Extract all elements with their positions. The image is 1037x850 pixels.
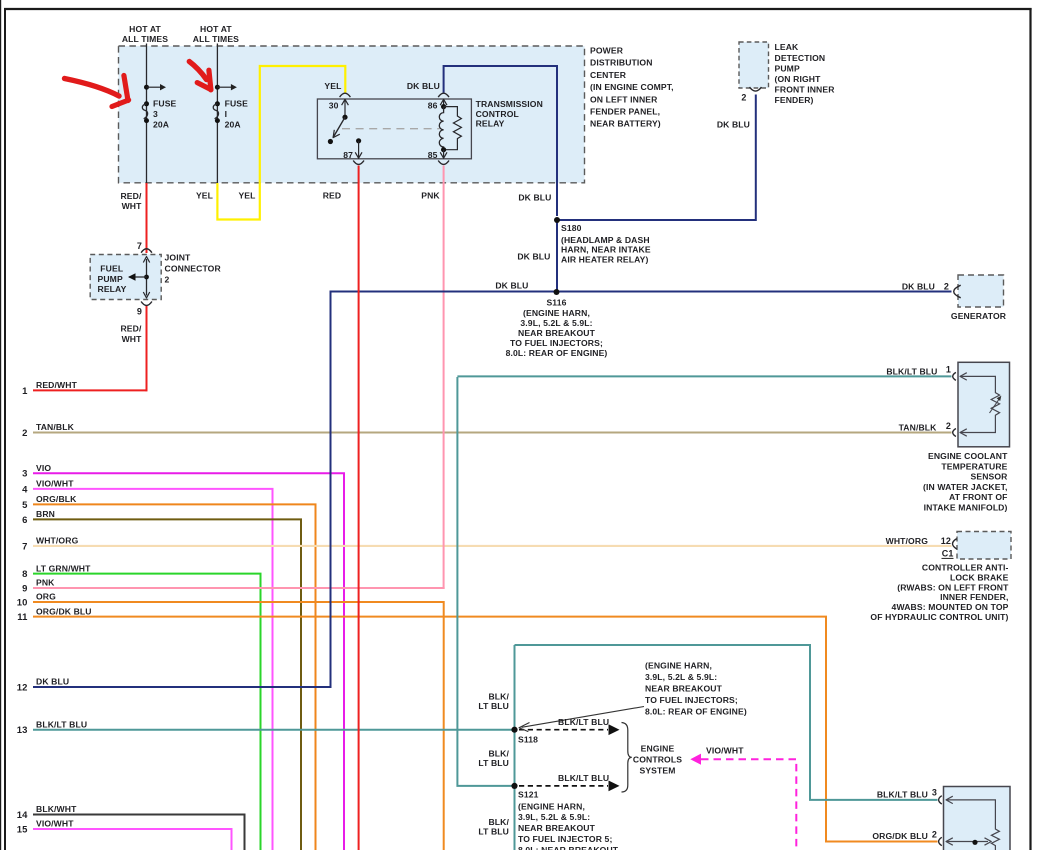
svg-text:OF HYDRAULIC CONTROL UNIT): OF HYDRAULIC CONTROL UNIT): [870, 612, 1008, 622]
svg-text:6: 6: [22, 515, 27, 526]
svg-text:2: 2: [22, 428, 27, 439]
svg-text:DISTRIBUTION: DISTRIBUTION: [590, 58, 653, 68]
svg-text:YEL: YEL: [196, 191, 213, 201]
svg-text:SENSOR: SENSOR: [970, 472, 1008, 482]
svg-text:11: 11: [17, 612, 28, 623]
svg-text:FUSE: FUSE: [225, 98, 249, 108]
svg-text:INTAKE MANIFOLD): INTAKE MANIFOLD): [924, 503, 1008, 513]
svg-text:3.9L, 5.2L & 5.9L:: 3.9L, 5.2L & 5.9L:: [520, 318, 592, 328]
svg-text:ON LEFT INNER: ON LEFT INNER: [590, 94, 658, 104]
svg-text:VIO/WHT: VIO/WHT: [36, 479, 74, 489]
svg-text:PUMP: PUMP: [98, 274, 123, 284]
svg-text:ORG: ORG: [36, 592, 56, 602]
svg-text:1: 1: [22, 386, 28, 397]
svg-text:TEMPERATURE: TEMPERATURE: [941, 461, 1007, 471]
svg-text:AIR HEATER RELAY): AIR HEATER RELAY): [561, 254, 649, 264]
svg-text:CONTROLLER ANTI-: CONTROLLER ANTI-: [922, 563, 1009, 573]
svg-text:YEL: YEL: [238, 191, 255, 201]
svg-text:3.9L, 5.2L & 5.9L:: 3.9L, 5.2L & 5.9L:: [518, 812, 590, 822]
svg-text:2: 2: [165, 275, 170, 285]
svg-text:DK BLU: DK BLU: [517, 252, 550, 262]
svg-text:8.0L: REAR OF ENGINE): 8.0L: REAR OF ENGINE): [506, 348, 608, 358]
svg-text:POWER: POWER: [590, 46, 624, 56]
svg-text:14: 14: [17, 810, 28, 821]
svg-text:DK BLU: DK BLU: [36, 677, 69, 687]
svg-text:8.0L: REAR OF ENGINE): 8.0L: REAR OF ENGINE): [645, 706, 747, 716]
svg-text:1: 1: [946, 365, 951, 375]
svg-text:FENDER PANEL,: FENDER PANEL,: [590, 107, 660, 117]
svg-text:20A: 20A: [153, 119, 169, 129]
svg-text:S118: S118: [518, 734, 538, 744]
svg-text:ALL TIMES: ALL TIMES: [193, 34, 239, 44]
svg-text:2: 2: [944, 282, 949, 292]
svg-text:C1: C1: [942, 549, 954, 559]
svg-text:RED: RED: [323, 191, 342, 201]
svg-text:13: 13: [17, 725, 28, 736]
svg-text:RELAY: RELAY: [98, 284, 127, 294]
svg-text:VIO: VIO: [36, 463, 51, 473]
svg-text:RED/: RED/: [120, 324, 142, 334]
svg-text:CENTER: CENTER: [590, 70, 627, 80]
svg-text:FENDER): FENDER): [775, 95, 814, 105]
svg-text:3: 3: [22, 469, 27, 480]
svg-text:DK BLU: DK BLU: [717, 119, 750, 129]
svg-text:3: 3: [932, 788, 937, 798]
svg-text:ORG/DK BLU: ORG/DK BLU: [36, 606, 92, 616]
svg-text:12: 12: [17, 682, 28, 693]
svg-text:4: 4: [22, 484, 28, 495]
svg-text:I: I: [225, 109, 228, 119]
svg-text:HARN, NEAR INTAKE: HARN, NEAR INTAKE: [561, 245, 651, 255]
svg-text:DK BLU: DK BLU: [902, 282, 935, 292]
svg-text:WHT/ORG: WHT/ORG: [36, 536, 79, 546]
svg-text:(ON RIGHT: (ON RIGHT: [775, 74, 822, 84]
svg-text:86: 86: [428, 100, 438, 110]
svg-text:RED/WHT: RED/WHT: [36, 380, 78, 390]
svg-text:4WABS: MOUNTED ON TOP: 4WABS: MOUNTED ON TOP: [892, 602, 1009, 612]
svg-text:LT GRN/WHT: LT GRN/WHT: [36, 563, 91, 573]
svg-text:FUEL: FUEL: [100, 264, 123, 274]
svg-text:30: 30: [329, 100, 339, 110]
svg-text:5: 5: [22, 500, 28, 511]
svg-text:(IN WATER JACKET,: (IN WATER JACKET,: [923, 482, 1007, 492]
svg-text:JOINT: JOINT: [165, 253, 192, 263]
svg-text:(RWABS: ON LEFT FRONT: (RWABS: ON LEFT FRONT: [897, 582, 1009, 592]
svg-text:TO FUEL INJECTOR 5;: TO FUEL INJECTOR 5;: [518, 834, 612, 844]
svg-text:DK BLU: DK BLU: [518, 193, 551, 203]
svg-text:FUSE: FUSE: [153, 98, 177, 108]
svg-text:(ENGINE HARN,: (ENGINE HARN,: [645, 660, 712, 670]
svg-text:CONNECTOR: CONNECTOR: [165, 264, 222, 274]
svg-text:VIO/WHT: VIO/WHT: [36, 819, 74, 829]
svg-text:9: 9: [22, 583, 27, 594]
svg-text:CONTROL: CONTROL: [476, 109, 519, 119]
svg-text:BLK/LT BLU: BLK/LT BLU: [36, 719, 87, 729]
svg-text:DK BLU: DK BLU: [407, 81, 440, 91]
svg-text:9: 9: [137, 307, 142, 317]
svg-text:BLK/LT BLU: BLK/LT BLU: [877, 789, 928, 799]
svg-text:LOCK BRAKE: LOCK BRAKE: [950, 572, 1009, 582]
svg-text:20A: 20A: [225, 119, 241, 129]
svg-text:LT BLU: LT BLU: [478, 826, 509, 836]
svg-text:87: 87: [343, 150, 353, 160]
svg-text:HOT AT: HOT AT: [129, 24, 161, 34]
svg-text:PNK: PNK: [36, 578, 55, 588]
svg-text:2: 2: [932, 829, 937, 839]
svg-text:(ENGINE HARN,: (ENGINE HARN,: [523, 308, 590, 318]
svg-text:15: 15: [17, 824, 28, 835]
svg-text:7: 7: [137, 241, 142, 251]
svg-text:LEAK: LEAK: [775, 42, 800, 52]
svg-text:S121: S121: [518, 790, 539, 800]
svg-text:2: 2: [946, 421, 951, 431]
svg-text:S116: S116: [546, 297, 566, 307]
svg-text:CONTROLS: CONTROLS: [633, 755, 682, 765]
svg-text:S180: S180: [561, 223, 582, 233]
svg-text:LT BLU: LT BLU: [478, 758, 509, 768]
svg-text:12: 12: [941, 536, 951, 546]
svg-text:3.9L, 5.2L & 5.9L:: 3.9L, 5.2L & 5.9L:: [645, 672, 717, 682]
svg-text:VIO/WHT: VIO/WHT: [706, 746, 744, 756]
svg-text:NEAR BREAKOUT: NEAR BREAKOUT: [518, 328, 596, 338]
svg-text:TAN/BLK: TAN/BLK: [36, 422, 75, 432]
svg-text:ORG/DK BLU: ORG/DK BLU: [872, 831, 928, 841]
svg-text:SYSTEM: SYSTEM: [639, 765, 675, 775]
svg-text:ENGINE COOLANT: ENGINE COOLANT: [928, 451, 1008, 461]
svg-text:AT FRONT OF: AT FRONT OF: [949, 492, 1007, 502]
svg-text:ORG/BLK: ORG/BLK: [36, 494, 77, 504]
svg-text:HOT AT: HOT AT: [200, 24, 232, 34]
svg-text:DETECTION: DETECTION: [775, 53, 826, 63]
svg-text:WHT: WHT: [122, 334, 143, 344]
svg-text:(HEADLAMP & DASH: (HEADLAMP & DASH: [561, 235, 650, 245]
svg-text:ENGINE: ENGINE: [641, 744, 675, 754]
svg-text:2: 2: [741, 92, 746, 102]
svg-text:BLK/LT BLU: BLK/LT BLU: [558, 773, 609, 783]
svg-text:WHT/ORG: WHT/ORG: [886, 536, 929, 546]
svg-text:GENERATOR: GENERATOR: [951, 311, 1007, 321]
svg-text:DK BLU: DK BLU: [495, 281, 528, 291]
svg-text:BRN: BRN: [36, 509, 55, 519]
svg-text:FRONT INNER: FRONT INNER: [775, 85, 836, 95]
svg-text:RED/: RED/: [120, 191, 142, 201]
svg-text:85: 85: [428, 150, 438, 160]
svg-text:10: 10: [17, 597, 28, 608]
svg-text:(ENGINE HARN,: (ENGINE HARN,: [518, 801, 585, 811]
svg-text:TRANSMISSION: TRANSMISSION: [476, 99, 543, 109]
svg-text:PNK: PNK: [421, 191, 440, 201]
svg-text:BLK/WHT: BLK/WHT: [36, 804, 77, 814]
svg-text:NEAR BATTERY): NEAR BATTERY): [590, 119, 661, 129]
svg-text:8: 8: [22, 569, 27, 580]
svg-text:YEL: YEL: [324, 81, 341, 91]
svg-text:TAN/BLK: TAN/BLK: [899, 423, 938, 433]
svg-text:NEAR BREAKOUT: NEAR BREAKOUT: [518, 823, 596, 833]
svg-text:BLK/: BLK/: [488, 692, 509, 702]
svg-text:BLK/LT BLU: BLK/LT BLU: [886, 366, 937, 376]
svg-text:PUMP: PUMP: [775, 63, 800, 73]
svg-text:3: 3: [153, 109, 158, 119]
svg-text:7: 7: [22, 541, 27, 552]
svg-text:TO FUEL INJECTORS;: TO FUEL INJECTORS;: [645, 695, 738, 705]
svg-text:WHT: WHT: [122, 201, 143, 211]
svg-text:INNER FENDER,: INNER FENDER,: [940, 592, 1008, 602]
svg-text:BLK/LT BLU: BLK/LT BLU: [558, 717, 609, 727]
svg-text:ALL TIMES: ALL TIMES: [122, 34, 168, 44]
svg-text:RELAY: RELAY: [476, 119, 505, 129]
svg-text:LT BLU: LT BLU: [478, 701, 509, 711]
svg-text:(IN ENGINE COMPT,: (IN ENGINE COMPT,: [590, 82, 674, 92]
svg-text:NEAR BREAKOUT: NEAR BREAKOUT: [645, 683, 723, 693]
svg-text:8.0L: NEAR BREAKOUT: 8.0L: NEAR BREAKOUT: [518, 845, 619, 850]
svg-text:TO FUEL INJECTORS;: TO FUEL INJECTORS;: [510, 338, 603, 348]
